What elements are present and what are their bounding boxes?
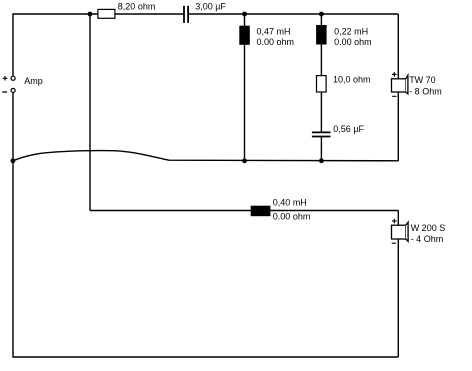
node C junction (319, 12, 324, 17)
svg-text:0,56 µF: 0,56 µF (333, 124, 364, 134)
wire woofer feed horizontal (90, 210, 398, 212)
node A junction (88, 12, 93, 17)
svg-text:Amp: Amp (24, 76, 43, 86)
wire woofer feed vertical from node A (89, 14, 91, 211)
svg-text:0.00 ohm: 0.00 ohm (273, 212, 311, 222)
wire amp minus return (hand-drawn) (13, 151, 398, 161)
wire shunt branch 1 vertical (244, 14, 246, 161)
wire woofer plus down (397, 211, 399, 226)
speaker TW 70 (tweeter) (392, 72, 442, 96)
svg-text:W 200 S: W 200 S (411, 223, 446, 233)
svg-text:10,0 ohm: 10,0 ohm (333, 75, 371, 85)
svg-text:0.00 ohm: 0.00 ohm (334, 37, 372, 47)
resistor R2 10,0 ohm (317, 75, 371, 92)
inductor L1 0,47 mH (240, 26, 294, 47)
capacitor C2 0,56 µF (312, 124, 365, 137)
wire tweeter minus down (397, 92, 399, 161)
wire top rail right segment (cap C1 to tweeter corner) (189, 13, 398, 15)
capacitor C1 3,00 µF (184, 1, 226, 23)
node B junction (242, 12, 247, 17)
svg-text:TW 70: TW 70 (409, 75, 436, 85)
wire tweeter feed down (397, 14, 399, 79)
svg-text:0,47 mH: 0,47 mH (257, 27, 291, 37)
svg-text:0,22 mH: 0,22 mH (334, 27, 368, 37)
wire bottom return rail (13, 93, 398, 357)
svg-text:- 8 Ohm: - 8 Ohm (409, 87, 442, 97)
wire shunt branch 2 lower vertical (320, 137, 322, 161)
node D junction (amp minus) (11, 158, 16, 163)
wire top rail left segment (amp + to cap C1) (13, 14, 183, 76)
svg-text:0.00 ohm: 0.00 ohm (257, 37, 295, 47)
svg-text:- 4 Ohm: - 4 Ohm (411, 234, 444, 244)
amp U1 (2, 76, 43, 93)
wire woofer minus down (397, 239, 399, 357)
node F junction (319, 158, 324, 163)
svg-text:3,00 µF: 3,00 µF (195, 1, 226, 11)
inductor L3 0,40 mH (251, 197, 310, 221)
svg-text:8,20 ohm: 8,20 ohm (118, 2, 156, 12)
inductor L2 0,22 mH (317, 26, 372, 47)
speaker W 200 S (woofer) (392, 219, 446, 244)
wire shunt branch 2 upper vertical (320, 14, 322, 76)
resistor R1 8,20 ohm (98, 2, 155, 19)
svg-text:0,40 mH: 0,40 mH (273, 197, 307, 207)
wire shunt branch 2 middle vertical (320, 92, 322, 132)
node E junction (242, 158, 247, 163)
